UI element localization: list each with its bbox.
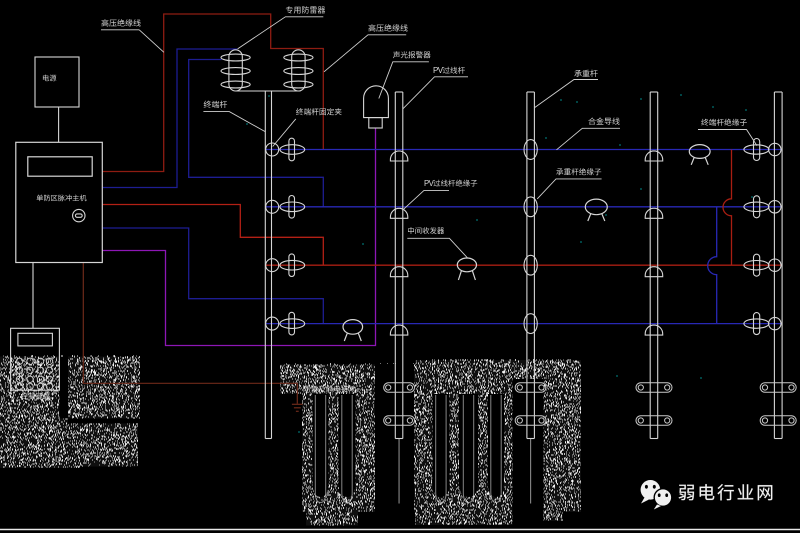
mounting plate upper pole P3 [384,383,415,393]
watermark text 弱电行业网 [679,484,773,500]
noise specks [246,95,753,432]
earth hatch central soil block [280,360,581,526]
keypad buttons [16,358,52,390]
pass-through collar pole P3 row 4 [390,325,407,335]
trench slot (black) left block [59,357,68,419]
label PV过线杆 [403,66,468,109]
pass-through collar pole P5 row 3 [645,267,663,277]
mounting plate upper pole P4 [515,383,546,393]
ground symbol [292,404,303,411]
ground electrodes (U outlines) [315,395,501,503]
svg-text:V: V [429,179,435,188]
pass-through collar pole P3 row 2 [390,208,407,218]
egg insulator pole P4 row 1 [524,140,537,160]
earth hatch left soil block [0,356,140,468]
terminal clamp insulator pole P1 row 2 [266,196,305,219]
hanging insulator row1 [689,145,710,165]
label 高压绝缘线 1 [101,19,164,52]
black column around pole P3 [375,364,414,525]
fence wire row 4 (blue) [266,323,781,325]
fence wire row 1 (blue) [266,149,781,151]
mounting plate upper pole P6 [760,383,796,393]
wire jumper blue row2-row4 with hop [708,207,717,324]
lightning arrester LA1 [221,50,250,91]
egg insulator pole P4 row 2 [524,197,537,217]
pole P1 terminal pole [235,90,300,92]
power supply box [35,57,79,142]
label 中间收发器 [407,227,467,258]
svg-text:V: V [438,66,444,75]
pole P5 PV pass pole [650,92,658,439]
fence wire row 3 (red) [266,264,781,266]
egg insulator pole P4 row 4 [524,314,537,334]
wire navy feed 2: arrester LA1 to fence row2 [189,60,324,207]
wire blue feed: host to fence row4 [102,228,323,324]
watermark wechat icon [641,480,672,510]
wire ground lead (dark red-brown) [83,263,297,404]
lightning arrester LA2 [284,50,313,91]
wire jumper red row1-row3 with hop [723,150,732,266]
label 承重杆绝缘子 [537,168,601,199]
terminal clamp insulator pole P6 row 1 [744,139,781,161]
bottom border line [0,529,800,531]
label 承重杆 [534,70,598,108]
terminal clamp insulator pole P6 row 4 [744,313,781,335]
label 声光报警器 [379,51,431,98]
black column around pole P4 [513,379,544,525]
mounting plate lower pole P5 [636,416,672,426]
terminal clamp insulator pole P1 row 3 [266,254,305,277]
label 终端杆固定夹 [273,108,342,146]
pulse host main unit [16,142,103,262]
terminal clamp insulator pole P6 row 2 [744,196,781,218]
label 合金导线 [557,117,621,149]
label 终端杆绝缘子 [698,119,757,146]
pass-through collar pole P5 row 4 [645,325,663,335]
trench slots (black) central block [313,394,505,497]
label 高压绝缘线 2 [324,24,408,72]
terminal clamp insulator pole P1 row 4 [266,312,305,335]
egg insulator pole P4 row 3 [524,255,537,275]
hanging insulator row3 [457,258,476,280]
siren (sound-light alarm) [364,86,389,128]
hanging insulator row4 [343,320,363,341]
pass-through collar pole P5 row 1 [645,151,663,161]
mounting plate lower pole P4 [515,416,546,426]
wire bright-red feed: host to fence row3 [102,205,323,266]
host terminal circle [73,209,85,221]
pole P6 terminal pole [774,92,782,439]
electrode line under pole P3 [398,439,400,504]
wire purple: host to siren [102,128,375,346]
pass-through collar pole P3 row 3 [390,267,407,277]
pole P3 PV pass pole [395,92,403,439]
electrode line under pole P4 [530,439,532,504]
fence wire row 2 (blue) [266,206,781,208]
label 终端杆 [203,101,265,132]
terminal clamp insulator pole P1 row 1 [266,138,305,161]
label 专用防雷器 [238,6,326,49]
mounting plate lower pole P6 [760,416,796,426]
wire navy feed: host to arrester LA1 top [102,49,237,188]
pass-through collar pole P5 row 2 [645,208,663,218]
label PV过线杆绝缘子 [404,179,477,209]
keypad [11,263,60,391]
pole P4 load pole [527,92,535,439]
label 防雷及静电接地 [304,386,356,393]
pass-through collar pole P3 row 1 [390,151,407,161]
terminal clamp insulator pole P6 row 3 [744,254,781,276]
hanging insulator row2 [585,199,607,221]
mounting plate upper pole P5 [636,383,672,393]
wire dark-red feed: host to fence row1 via arrester [102,14,323,172]
mounting plate lower pole P3 [384,416,415,426]
